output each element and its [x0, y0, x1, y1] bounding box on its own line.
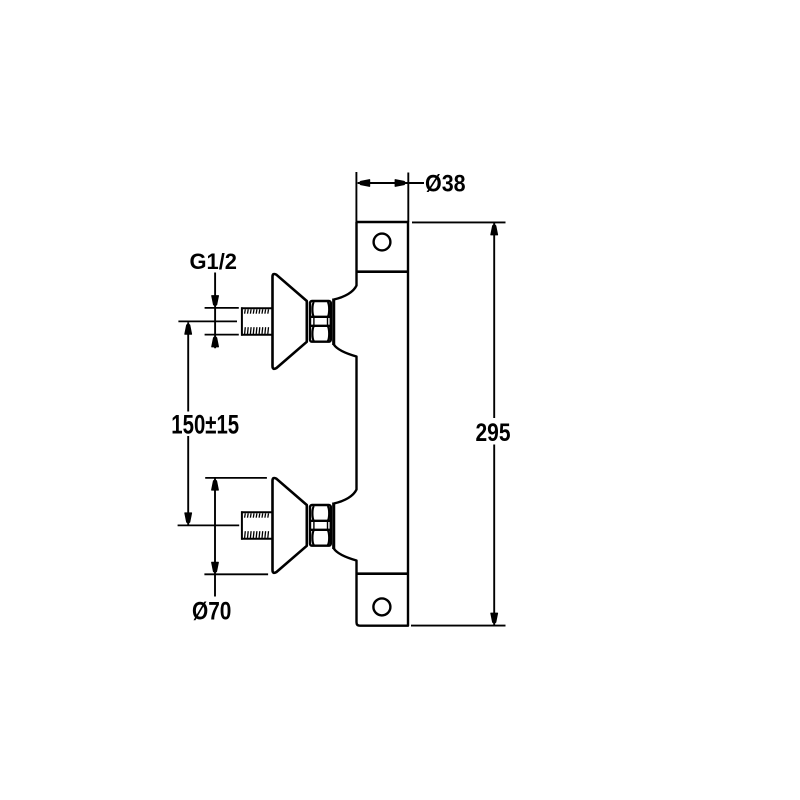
- dim G1/2 lower tick: [205, 334, 239, 336]
- svg-text:G1/2: G1/2: [190, 249, 238, 274]
- dim 150±15 dimension line upper segment: [187, 322, 189, 411]
- bottom inlet boss face: [332, 503, 335, 550]
- bottom mounting tab upper edge: [357, 572, 409, 575]
- top inlet threaded pipe: [241, 307, 272, 335]
- dim 150±15 top arrow: [185, 324, 192, 334]
- bottom pipe thread hatching: [245, 513, 269, 538]
- bottom inlet union nut: [310, 505, 331, 546]
- dim Ø38 right extension line: [407, 173, 409, 223]
- dim G1/2 upper tick: [205, 307, 239, 309]
- dim Ø38 right arrow: [395, 180, 405, 187]
- svg-text:Ø70: Ø70: [192, 599, 231, 626]
- bottom mounting hole: [373, 598, 390, 615]
- svg-text:150±15: 150±15: [171, 409, 239, 439]
- dim 295 top extension line: [412, 221, 506, 223]
- dim Ø70 top arrow: [212, 480, 219, 490]
- top inlet centerline: [178, 320, 237, 322]
- dim Ø38 dimension line: [358, 182, 424, 184]
- dim Ø70 lower tick: [204, 573, 268, 575]
- top inlet escutcheon cone: [273, 274, 307, 369]
- dim 295 dimension line upper segment: [493, 223, 495, 418]
- dim 295 top arrow: [491, 225, 498, 235]
- bottom inlet escutcheon cone: [273, 478, 307, 573]
- bottom inlet threaded pipe: [241, 511, 272, 539]
- dim Ø70 bottom arrow: [212, 562, 219, 572]
- dim 150±15 bottom arrow: [185, 513, 192, 523]
- dim Ø38 left arrow: [360, 180, 370, 187]
- dim 295 bottom extension line: [411, 625, 506, 627]
- svg-text:Ø38: Ø38: [425, 171, 466, 198]
- top mounting hole: [374, 234, 391, 251]
- dim Ø70 upper tick: [205, 477, 267, 479]
- top inlet boss face: [332, 299, 335, 346]
- mixer body outline: [334, 222, 408, 626]
- dim Ø70 dimension line: [214, 478, 216, 596]
- dim G1/2 lower arrow: [212, 337, 219, 347]
- bottom inlet centerline: [178, 524, 240, 526]
- top pipe thread hatching: [245, 309, 269, 334]
- dim 150±15 dimension line lower segment: [187, 436, 189, 525]
- dim 295 bottom arrow: [491, 613, 498, 623]
- dim G1/2 upper arrow: [212, 296, 219, 306]
- top mounting tab lower edge: [357, 270, 409, 273]
- top inlet union nut: [310, 301, 331, 342]
- dim 295 dimension line lower segment: [493, 445, 495, 626]
- dim Ø38 left extension line: [355, 172, 357, 221]
- svg-text:295: 295: [476, 419, 511, 447]
- dim G1/2 leader line: [214, 273, 216, 349]
